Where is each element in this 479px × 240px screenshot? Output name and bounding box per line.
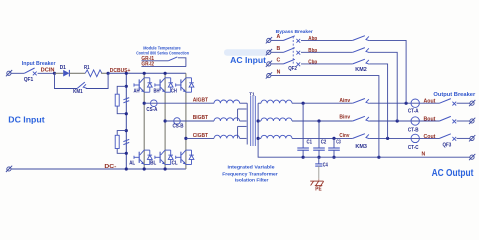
svg-text:Cbp: Cbp bbox=[308, 60, 317, 66]
svg-text:KM2: KM2 bbox=[355, 67, 367, 73]
wire QF2 pole A to contactor KM2 bbox=[301, 39, 353, 41]
svg-text:Binv: Binv bbox=[339, 115, 350, 121]
terminal output A bbox=[469, 100, 475, 106]
breaker QF2 pole A bbox=[284, 36, 301, 43]
wire QF2 pole C to contactor KM2 bbox=[301, 63, 353, 65]
ground PE (protective earth) bbox=[310, 181, 324, 186]
wire DC input positive from terminal to breaker QF1 bbox=[11, 72, 24, 74]
breaker QF2 pole B bbox=[284, 48, 301, 55]
node phase tap A bbox=[143, 102, 146, 105]
contactor KM2 contact C bbox=[353, 59, 370, 64]
wire GR-I2 lead bbox=[141, 66, 186, 68]
transistor BL (low-side IGBT) bbox=[155, 150, 173, 164]
svg-text:PE: PE bbox=[315, 187, 322, 193]
terminal output C bbox=[469, 135, 475, 141]
svg-text:BH: BH bbox=[154, 89, 160, 95]
node chain lower pair bottom bbox=[125, 152, 128, 155]
wire inverter leg A vertical (grey power path) bbox=[143, 73, 145, 169]
breaker QF1 (input breaker) bbox=[24, 68, 36, 75]
node leg A top on DC+ bus bbox=[143, 72, 146, 75]
svg-text:KM3: KM3 bbox=[355, 144, 367, 150]
capacitor C1 bbox=[302, 103, 304, 148]
svg-text:QF3: QF3 bbox=[443, 142, 452, 148]
node C1 on neutral bbox=[302, 156, 305, 159]
capacitor C3 bbox=[333, 138, 335, 148]
svg-text:B: B bbox=[277, 46, 281, 52]
node phase tap B bbox=[164, 119, 167, 122]
capacitor C2 bbox=[318, 121, 320, 148]
transistor AH (high-side IGBT) bbox=[134, 78, 152, 92]
svg-text:C2: C2 bbox=[321, 140, 327, 146]
inductor filter coil phase C (transformer primary C) bbox=[214, 135, 240, 138]
wire QF3 pole B to output terminal bbox=[457, 120, 470, 122]
svg-text:N: N bbox=[422, 152, 426, 158]
contactor KM2 contact A bbox=[353, 36, 370, 41]
terminal AC input A bbox=[266, 37, 272, 43]
svg-text:R1: R1 bbox=[84, 65, 90, 71]
wire QF2 pole B to contactor KM2 bbox=[301, 51, 353, 53]
inductor transformer secondary A bbox=[258, 102, 261, 104]
svg-text:AC Input: AC Input bbox=[230, 55, 266, 65]
wire phase C from KM3 to output breaker bbox=[369, 137, 439, 139]
svg-text:DC-: DC- bbox=[104, 164, 116, 170]
current sensor CS-B bbox=[174, 118, 181, 125]
wire secondary C to contactor KM3 bbox=[292, 137, 353, 139]
svg-text:Output Breaker: Output Breaker bbox=[433, 92, 475, 98]
node chain top bbox=[125, 72, 128, 75]
svg-text:AH: AH bbox=[134, 89, 140, 95]
wire phase B from leg to filter coil bbox=[165, 120, 214, 122]
wire C4 to earth bbox=[318, 166, 320, 179]
wire resistor R1 to node DCBUS+ (grey power path) bbox=[101, 72, 108, 74]
inductor transformer secondary C bbox=[258, 137, 261, 139]
terminal AC input B bbox=[266, 49, 272, 55]
bus bleeder resistor (upper) bbox=[115, 94, 119, 106]
resistor R1 bbox=[85, 70, 102, 77]
node leg A bottom on DC- bus bbox=[143, 167, 146, 170]
svg-text:Abp: Abp bbox=[308, 36, 317, 42]
node secondary star B bbox=[257, 119, 260, 122]
wire GR contact return bbox=[178, 58, 186, 67]
wire DCIN node to diode D1 (grey power path) bbox=[55, 72, 64, 74]
svg-text:QF1: QF1 bbox=[24, 77, 34, 83]
bus capacitor (lower, on chain) bbox=[123, 139, 129, 144]
wire phase A from leg to filter coil bbox=[144, 102, 214, 104]
node phase tap C bbox=[184, 137, 187, 140]
transistor BH (high-side IGBT) bbox=[155, 78, 173, 92]
wire upper bleeder resistor branch bbox=[117, 86, 126, 94]
node cap C2 tap on phase B bbox=[317, 119, 320, 122]
svg-text:C1: C1 bbox=[307, 140, 313, 146]
wire AC input C to bypass breaker QF2 bbox=[271, 63, 284, 65]
svg-text:AL: AL bbox=[129, 161, 135, 167]
wire phase A from KM3 to output breaker bbox=[369, 102, 439, 104]
node secondary star C bbox=[257, 137, 260, 140]
wire coil A to primary star point bbox=[240, 102, 248, 104]
svg-text:CS-B: CS-B bbox=[173, 124, 184, 130]
terminal AC input C bbox=[266, 61, 272, 67]
node chain lower pair top bbox=[125, 129, 128, 132]
node bypass junction A bbox=[405, 102, 408, 105]
wire transformer secondary star vertical to neutral bbox=[258, 103, 303, 157]
svg-text:DC Input: DC Input bbox=[8, 115, 45, 125]
svg-text:A: A bbox=[277, 34, 281, 40]
wire GR-I1 lead bbox=[141, 60, 168, 62]
wire coil C end loop bbox=[240, 137, 247, 139]
node leg B top on DC+ bus bbox=[164, 72, 167, 75]
wire inverter leg B vertical (grey power path) bbox=[164, 73, 166, 169]
breaker QF3 pole C bbox=[440, 134, 457, 141]
breaker QF2 pole C bbox=[284, 59, 301, 66]
wire coil B end loop bbox=[240, 120, 247, 122]
node chain bottom on DC- bus bbox=[125, 167, 128, 170]
current sensor CS-A bbox=[151, 100, 158, 107]
contactor KM2 contact B bbox=[353, 48, 370, 53]
wire transformer primary star vertical bbox=[246, 103, 248, 144]
current transformer CT-A bbox=[411, 99, 419, 107]
svg-text:Integrated Variable: Integrated Variable bbox=[228, 164, 275, 170]
transistor CH (high-side IGBT) bbox=[176, 78, 194, 92]
terminal output B bbox=[469, 118, 475, 124]
svg-text:Cinv: Cinv bbox=[339, 133, 349, 139]
svg-text:Cout: Cout bbox=[424, 134, 436, 140]
svg-text:BL: BL bbox=[150, 161, 156, 167]
svg-text:Bypass Breaker: Bypass Breaker bbox=[276, 29, 313, 34]
svg-text:Bbp: Bbp bbox=[308, 48, 317, 54]
wire diode D1 to resistor R1 (grey power path) bbox=[69, 72, 85, 74]
contactor KM3 contact B bbox=[353, 116, 370, 121]
breaker QF2 mechanical tie (dashed) bbox=[292, 36, 294, 64]
node DCBUS+ bbox=[107, 72, 110, 75]
svg-text:BIGBT: BIGBT bbox=[193, 115, 209, 121]
svg-text:CT-A: CT-A bbox=[408, 109, 419, 115]
svg-text:CT-B: CT-B bbox=[408, 127, 419, 133]
wire DC- bus rail bbox=[11, 168, 186, 170]
terminal DC- input bbox=[6, 166, 12, 172]
node cap C3 tap on phase C bbox=[332, 137, 335, 140]
svg-text:CL: CL bbox=[172, 161, 178, 167]
svg-text:Input Breaker: Input Breaker bbox=[22, 61, 56, 67]
node bypass junction B bbox=[396, 119, 399, 122]
transistor AL (low-side IGBT) bbox=[134, 150, 152, 164]
svg-text:AIGBT: AIGBT bbox=[193, 98, 209, 104]
inductor transformer secondary B bbox=[258, 120, 261, 122]
capacitor C4 (neutral to earth) bbox=[318, 157, 320, 164]
node leg B bottom on DC- bus bbox=[164, 167, 167, 170]
breaker QF3 pole B bbox=[440, 116, 457, 123]
wire QF3 pole A to output terminal bbox=[457, 102, 470, 104]
wire bypass B from KM2 down to output junction bbox=[369, 52, 397, 121]
wire KM1 bypass loop around D1 and R1 bbox=[55, 73, 78, 88]
svg-text:T1: T1 bbox=[249, 92, 255, 98]
node bypass junction C bbox=[386, 137, 389, 140]
wire QF3 pole C to output terminal bbox=[457, 137, 470, 139]
svg-text:Aout: Aout bbox=[424, 99, 436, 105]
wire breaker QF1 to node DCIN bbox=[38, 72, 55, 74]
svg-text:QF2: QF2 bbox=[288, 66, 297, 72]
current transformer CT-B bbox=[411, 117, 419, 125]
svg-text:KM1: KM1 bbox=[73, 89, 83, 95]
node neutral bypass junction bbox=[377, 156, 380, 159]
wire phase B from KM3 to output breaker bbox=[369, 120, 439, 122]
svg-text:Bout: Bout bbox=[424, 117, 436, 123]
node chain upper pair bottom bbox=[125, 112, 128, 115]
contactor KM3 contact A bbox=[353, 99, 370, 104]
terminal output N bbox=[469, 154, 475, 160]
wire neutral to output terminal bbox=[379, 156, 470, 158]
wire inverter leg C vertical (grey power path) bbox=[185, 73, 187, 169]
wire secondary B to contactor KM3 bbox=[292, 120, 353, 122]
svg-text:CT-C: CT-C bbox=[408, 145, 419, 151]
node chain upper pair top bbox=[125, 85, 128, 88]
transformer T1 core bbox=[251, 96, 256, 146]
inductor filter coil phase B (transformer primary B) bbox=[214, 118, 240, 121]
node C3 on neutral bbox=[332, 156, 335, 159]
bus capacitor (upper, on chain) bbox=[123, 98, 129, 103]
wire AC input A to bypass breaker QF2 bbox=[271, 39, 284, 41]
wire secondary A to contactor KM3 bbox=[292, 102, 353, 104]
svg-text:Isolation Filter: Isolation Filter bbox=[235, 177, 269, 183]
diode D1 bbox=[63, 70, 69, 77]
svg-text:C4: C4 bbox=[323, 163, 328, 169]
svg-text:D1: D1 bbox=[60, 65, 66, 71]
svg-text:AC Output: AC Output bbox=[432, 168, 474, 179]
wire AC input neutral to junction bbox=[271, 76, 379, 158]
wire AC input B to bypass breaker QF2 bbox=[271, 51, 284, 53]
transistor CL (low-side IGBT) bbox=[176, 150, 194, 164]
svg-text:DCIN: DCIN bbox=[41, 67, 55, 73]
svg-text:C3: C3 bbox=[336, 140, 341, 146]
thermal switch GR contact blade bbox=[168, 57, 177, 61]
node cap C1 tap on phase A bbox=[302, 102, 305, 105]
bus bleeder resistor (lower) bbox=[115, 135, 119, 148]
wire bypass C from KM2 down to output junction bbox=[369, 64, 387, 138]
node DCIN bbox=[53, 72, 56, 75]
highlight smudge above AC Input bbox=[224, 49, 269, 55]
svg-text:N: N bbox=[277, 69, 281, 75]
svg-text:Ainv: Ainv bbox=[339, 98, 350, 104]
svg-text:C: C bbox=[277, 58, 281, 64]
wire bypass A from KM2 down to output junction bbox=[369, 40, 406, 103]
wire DC bus capacitor chain vertical bbox=[125, 73, 127, 169]
terminal AC input N bbox=[266, 72, 272, 78]
contactor KM1 (soft-start bypass contact) bbox=[77, 82, 87, 88]
current transformer CT-C bbox=[411, 134, 419, 142]
wire phase C from leg to filter coil bbox=[186, 137, 214, 139]
wire DC+ bus rail bbox=[108, 72, 186, 74]
svg-text:CIGBT: CIGBT bbox=[193, 133, 209, 139]
svg-text:CH: CH bbox=[171, 89, 177, 95]
breaker QF3 pole A bbox=[440, 99, 457, 106]
wire neutral line bbox=[303, 156, 379, 158]
terminal DC+ input bbox=[6, 70, 12, 76]
svg-text:CS-A: CS-A bbox=[146, 107, 157, 113]
inductor filter coil phase A (transformer primary A) bbox=[214, 100, 240, 103]
wire lower bleeder resistor branch bbox=[117, 131, 126, 136]
contactor KM3 contact C bbox=[353, 134, 370, 139]
node C2 on neutral bbox=[317, 156, 320, 159]
svg-text:Frequency Transformer: Frequency Transformer bbox=[222, 171, 278, 177]
